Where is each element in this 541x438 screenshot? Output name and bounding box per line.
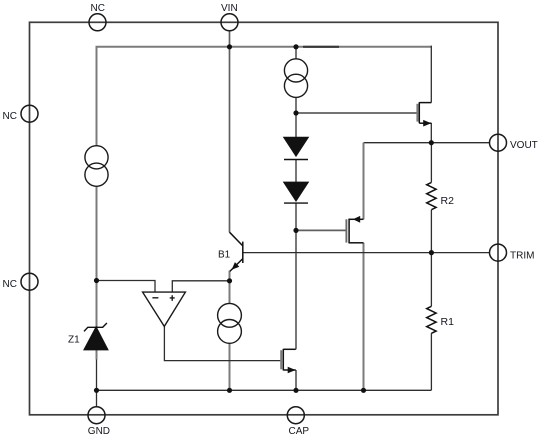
svg-text:VOUT: VOUT [510,140,538,151]
current source I2 (right top) [284,59,307,98]
transistor M2 (right middle) [346,219,363,244]
junction dot: VOUT node [429,140,434,145]
arrow: M1 source [423,120,431,127]
op-amp U1 [143,292,186,326]
svg-text:VIN: VIN [221,3,238,14]
svg-text:Z1: Z1 [68,335,80,346]
junction dot: right current source top [293,44,298,49]
wire: gate feed of M2 [296,229,346,231]
pin GND [88,407,105,424]
current source I1 (left) [85,146,108,187]
junction dot: TRIM node [429,250,434,255]
wire: middle current source to ground rail [229,343,231,390]
arrow: M2 source (points left) [353,216,360,223]
transistor M1 (NMOS top right) [417,102,431,123]
wire: zener top lead [96,281,98,328]
svg-text:R2: R2 [441,195,455,207]
junction dot: rail at middle current source [227,388,232,393]
svg-text:CAP: CAP [289,426,310,437]
wire: zener to ground rail dark segment [96,360,98,391]
wire: top rail VIN distribution [97,47,432,146]
wire: M2 bottom vertical to ground rail [363,243,365,390]
zener diode Z1 [84,323,108,350]
junction dot: rail at zener [94,388,99,393]
transistor M3 (NMOS bottom center) [281,349,296,371]
wire: op-amp non-inverting input from emitter node [172,281,229,292]
junction dot: zener top [94,278,99,283]
wire: TRIM horizontal from B1 base [243,252,490,254]
svg-text:NC: NC [3,111,17,122]
arrow: B1 emitter [232,262,240,270]
pin NC (top) [89,14,106,31]
svg-text:TRIM: TRIM [510,250,534,261]
wire: B1 emitter vertical [229,271,231,304]
pin NC (left lower) [21,273,38,290]
svg-text:R1: R1 [441,316,455,328]
wire: VIN vertical to B1 collector [229,31,231,232]
junction dot: rail at CAP [293,388,298,393]
junction dot: emitter node [227,278,232,283]
wire: bottom ground rail [97,389,432,391]
wire: M3 source to rail [295,370,297,390]
wire: op-amp inverting input from zener node [97,281,156,292]
junction dot: diode chain bottom [293,228,298,233]
wire: R2 leads [430,143,432,253]
wire: VOUT horizontal [364,142,490,144]
wire: M1 source to VOUT node [430,123,432,143]
wire: right current source bottom stub [295,97,297,113]
svg-text:B1: B1 [218,250,231,261]
wire: op-amp output to M3 gate [164,326,280,361]
svg-text:NC: NC [3,279,17,290]
pin VIN [221,14,238,31]
transistor B1 (NPN) [230,232,243,271]
wire: diode chain verticals [295,113,297,349]
junction dot: rail at M2 [361,388,366,393]
wire: left branch below current source [96,186,98,280]
resistor R2 [427,182,436,209]
IC boundary [30,22,499,415]
wire: GND pin stub [96,390,98,406]
resistor R1 [427,306,436,333]
svg-text:GND: GND [88,426,110,437]
junction dot: VIN top rail [227,44,232,49]
pin TRIM [490,244,507,261]
pin NC (left upper) [21,105,38,122]
wire: M2 top vertical [363,143,365,220]
arrow: M3 source [288,367,296,374]
wire: gate feed of M1 [296,112,417,114]
wire: zener bottom lead [96,350,98,360]
diode D1 [284,137,308,159]
pin VOUT [490,134,507,151]
junction dot: right current source bottom [293,110,298,115]
diode D2 [284,182,308,203]
wire: right current source top stub [295,46,297,59]
current source I3 (middle) [218,303,242,343]
pin CAP [287,407,304,424]
wire: dark segment on top rail [303,46,339,48]
svg-text:NC: NC [91,3,105,14]
wire: R1 leads [430,253,432,391]
wire: M1 drain vertical [430,46,432,103]
